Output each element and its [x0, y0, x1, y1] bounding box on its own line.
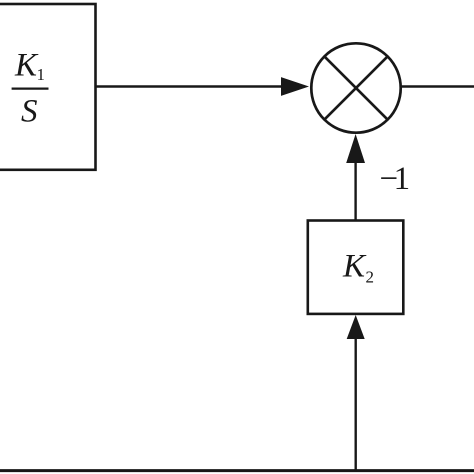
wire: bottom bus up to K2	[355, 337, 357, 471]
label K1 numerator	[14, 48, 45, 85]
block K2	[308, 221, 404, 314]
wire: bottom horizontal bus	[0, 469, 474, 472]
svg-text:2: 2	[366, 268, 375, 287]
arrowhead into summing junction (bottom)	[346, 134, 365, 163]
block K1/S (integrator box, clipped at left edge)	[0, 4, 96, 170]
arrowhead into summing junction (left)	[281, 77, 309, 96]
svg-text:S: S	[21, 94, 38, 130]
label K2	[342, 248, 374, 286]
wire: K1/S output to summing junction	[96, 85, 284, 87]
summing junction (circle with X multiplier)	[311, 43, 400, 132]
fraction bar	[12, 87, 49, 89]
svg-text:K: K	[342, 248, 367, 284]
wire: summing junction output to right edge	[401, 85, 474, 87]
wire: K2 output up to summing junction	[354, 161, 356, 221]
svg-text:K: K	[14, 48, 39, 84]
svg-text:−1: −1	[380, 161, 411, 197]
svg-text:1: 1	[37, 65, 46, 84]
arrowhead into K2 block (bottom)	[347, 315, 365, 339]
